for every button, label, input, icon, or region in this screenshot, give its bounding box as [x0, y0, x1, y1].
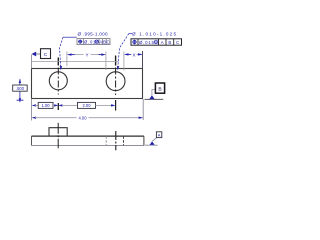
datum C box	[41, 49, 51, 59]
hole 2 circle	[106, 72, 125, 91]
hole 2 leader	[129, 33, 132, 35]
hole 1 leader	[63, 36, 77, 38]
pin in hole 1	[49, 128, 67, 136]
svg-text:2.00: 2.00	[83, 103, 92, 108]
datum C leader	[36, 53, 40, 55]
dimension X	[124, 52, 143, 57]
svg-text:A: A	[99, 40, 102, 45]
svg-text:4.00: 4.00	[79, 116, 88, 121]
datum B box	[155, 83, 164, 93]
svg-text:1.00: 1.00	[42, 103, 51, 108]
svg-text:B: B	[168, 40, 171, 45]
datum C triangle	[32, 52, 37, 57]
hole 2 centerline	[115, 56, 117, 111]
svg-text:C: C	[176, 40, 179, 45]
extension line hole2 right edge	[123, 52, 125, 71]
front view plate outline	[32, 69, 143, 99]
svg-text:Ø 1.010-1.025: Ø 1.010-1.025	[132, 31, 176, 36]
svg-text:Y: Y	[85, 53, 88, 58]
datum B triangle	[149, 95, 154, 99]
datum line row (gray)	[32, 61, 119, 63]
extension line hole1 right edge	[66, 52, 68, 67]
datum A triangle	[150, 141, 155, 145]
svg-text:.500: .500	[16, 86, 25, 91]
svg-text:C: C	[44, 52, 48, 58]
svg-text:M: M	[95, 40, 98, 44]
svg-text:M: M	[155, 41, 158, 45]
hidden line hole 2 right	[123, 136, 125, 145]
dimension 1.00	[32, 102, 63, 108]
svg-text:Ø .995-1.000: Ø .995-1.000	[78, 31, 108, 36]
dimension 2.00	[62, 102, 116, 108]
datum B extension line	[145, 98, 164, 100]
dimension 4.00	[32, 116, 144, 121]
svg-text:C: C	[107, 40, 110, 45]
side view centerline hole 2	[115, 131, 117, 150]
svg-text:A: A	[161, 40, 164, 45]
extension line left edge below	[31, 99, 33, 121]
hole 2 feature control frame	[131, 39, 182, 45]
svg-text:A: A	[158, 133, 161, 138]
left height dimension	[13, 79, 28, 103]
hidden line hole 2 left	[105, 136, 107, 145]
datum B leader	[152, 90, 156, 96]
svg-text:B: B	[103, 40, 106, 45]
svg-text:Ø.015: Ø.015	[139, 40, 155, 45]
hole 1 circle	[49, 72, 67, 90]
datum A box	[156, 132, 161, 138]
datum A leader	[152, 138, 156, 141]
extension line right edge above	[142, 51, 144, 69]
svg-text:X: X	[132, 52, 135, 57]
dimension Y	[67, 53, 106, 58]
datum A extension line	[145, 144, 158, 146]
extension line right edge below	[142, 99, 144, 120]
side view centerline hole 1	[57, 123, 59, 148]
side view plate	[32, 136, 144, 145]
hole 1 centerline	[57, 58, 59, 111]
extension line hole2 left edge	[105, 52, 107, 71]
extension line left edge above	[31, 55, 33, 69]
hole 1 feature control frame	[77, 39, 110, 45]
